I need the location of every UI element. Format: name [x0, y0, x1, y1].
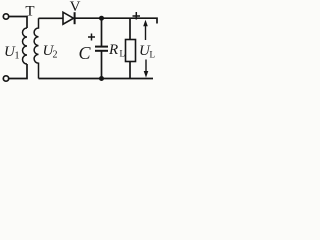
resistor RL bottom lead [129, 62, 131, 79]
svg-text:V: V [70, 0, 81, 15]
svg-text:2: 2 [53, 50, 58, 61]
wire secondary top to diode [39, 17, 64, 19]
diode V [63, 12, 74, 24]
node (junction dot bottom, capacitor) [99, 76, 104, 81]
resistor RL body [126, 40, 136, 62]
node (junction dot top, capacitor) [99, 16, 104, 21]
wire diode to top rail [75, 18, 157, 23]
terminal (top-left input) [3, 14, 8, 19]
svg-text:T: T [25, 4, 34, 20]
UL down arrow [145, 60, 147, 72]
transformer secondary winding [34, 18, 38, 78]
svg-text:R: R [108, 42, 118, 58]
resistor RL branch top lead [129, 18, 131, 39]
wire primary bottom to lower terminal [9, 64, 27, 79]
UL up arrow [145, 25, 147, 40]
bottom rail wire [39, 78, 154, 80]
svg-text:L: L [120, 49, 126, 59]
transformer T primary winding [23, 28, 28, 64]
svg-text:1: 1 [15, 51, 20, 62]
wire top-left to primary [9, 17, 27, 29]
plus sign (capacitor polarity) [88, 34, 95, 41]
svg-text:C: C [79, 43, 92, 63]
svg-text:L: L [150, 50, 156, 60]
plus sign (output polarity) [133, 12, 141, 20]
capacitor C (electrolytic) [101, 18, 103, 46]
terminal (bottom-left input) [3, 76, 8, 81]
